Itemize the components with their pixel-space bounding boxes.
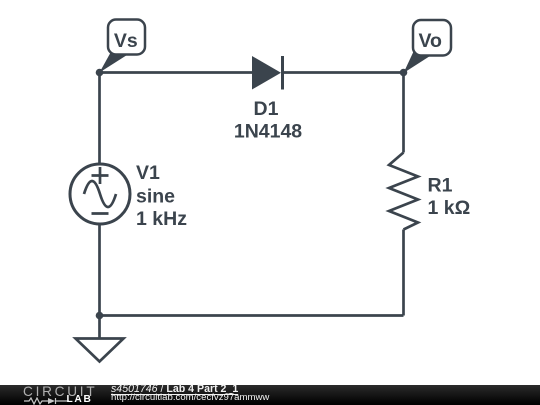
- svg-text:1 kHz: 1 kHz: [136, 208, 187, 230]
- svg-text:Vo: Vo: [418, 30, 442, 52]
- svg-text:sine: sine: [136, 185, 175, 207]
- svg-text:R1: R1: [428, 174, 453, 196]
- svg-text:1 kΩ: 1 kΩ: [428, 197, 471, 219]
- svg-text:V1: V1: [136, 162, 160, 184]
- svg-text:1N4148: 1N4148: [234, 120, 302, 142]
- svg-text:D1: D1: [254, 98, 279, 120]
- svg-text:Vs: Vs: [114, 30, 138, 52]
